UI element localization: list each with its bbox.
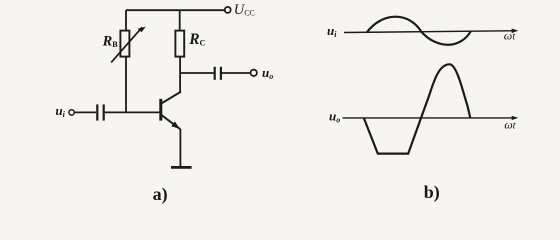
wire top rail from RB branch to Ucc terminal — [126, 9, 225, 11]
terminal uo circle — [251, 70, 257, 76]
svg-text:a): a) — [153, 184, 168, 205]
svg-text:ωt: ωt — [504, 28, 516, 42]
capacitor C2 (output coupling) — [215, 67, 221, 80]
axis for uo waveform — [343, 116, 519, 120]
resistor RB variable arrow — [111, 27, 146, 63]
wire output capacitor to uo terminal — [222, 72, 250, 74]
resistor RB body — [120, 31, 129, 57]
svg-text:b): b) — [424, 182, 440, 203]
terminal ui circle — [69, 110, 74, 115]
transistor V1 (NPN) — [161, 92, 181, 130]
wire RB bottom to base node — [125, 57, 127, 113]
wire emitter vertical to ground — [179, 129, 181, 166]
wire output node to output capacitor — [180, 72, 214, 74]
svg-text:RC: RC — [188, 31, 205, 48]
resistor RC body — [175, 31, 184, 57]
waveform ui sine — [367, 17, 471, 45]
svg-text:uo: uo — [329, 108, 340, 124]
terminal Ucc circle — [225, 7, 231, 13]
svg-text:ui: ui — [327, 23, 337, 39]
axis for ui waveform — [344, 29, 518, 34]
svg-text:uo: uo — [262, 65, 273, 81]
svg-text:ui: ui — [55, 103, 65, 119]
capacitor C1 (input coupling) — [97, 104, 103, 120]
waveform uo distorted output — [364, 64, 471, 153]
wire collector vertical (RC bottom through output node to transistor) — [179, 57, 181, 92]
wire RB branch top (rail down to RB) — [125, 10, 127, 30]
wire ui terminal to input capacitor — [75, 111, 97, 113]
svg-text:ωt: ωt — [504, 118, 516, 132]
wire base (capacitor to transistor base) — [105, 111, 160, 113]
wire RC top to rail — [179, 10, 181, 30]
svg-text:UCC: UCC — [234, 2, 255, 18]
ground — [171, 166, 192, 169]
svg-text:RB: RB — [102, 34, 119, 50]
